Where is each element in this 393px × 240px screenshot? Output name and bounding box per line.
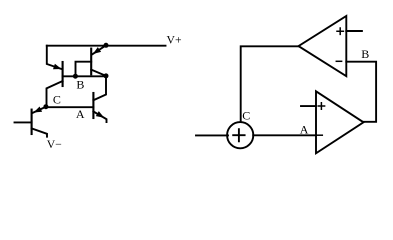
- svg-text:B: B: [76, 78, 84, 92]
- transistor Q1 emitter arrow: [93, 47, 101, 54]
- op-amp U1 minus sign: [336, 60, 341, 62]
- transistor Q2 (PNP, mirrored) base bar: [62, 62, 64, 86]
- transistor Q4 collector wire to V-: [32, 128, 47, 136]
- transistor Q3 (NPN) base bar: [92, 93, 94, 118]
- transistor Q3 emitter arrow: [96, 111, 104, 118]
- op-amp U1 plus sign: [337, 28, 343, 34]
- transistor Q3 emitter wire: [93, 112, 106, 123]
- transistor Q4 base lead: [15, 121, 32, 123]
- node dot on V+ rail (Q1 emitter junction): [104, 43, 109, 48]
- wire U1 - input feedback from U2 output: [346, 62, 376, 122]
- wire node B line (Q2 base to dot2): [63, 75, 106, 77]
- transistor Q1 emitter wire from V+ dot: [93, 45, 107, 54]
- wire U2 + input stub: [301, 105, 316, 107]
- svg-text:V−: V−: [47, 138, 62, 151]
- svg-text:V+: V+: [167, 34, 182, 47]
- wire from V+ rail corner down to Q2 emitter: [47, 46, 63, 70]
- svg-text:C: C: [242, 108, 250, 122]
- svg-text:B: B: [361, 47, 369, 61]
- summing node S1 plus sign: [233, 129, 244, 141]
- svg-text:A: A: [300, 122, 309, 136]
- svg-text:C: C: [53, 92, 61, 106]
- transistor Q1 collector wire: [91, 70, 106, 76]
- wire U1 output down to summing node (node C): [241, 46, 299, 122]
- op-amp U2 (bottom, points right): [316, 91, 364, 153]
- wire U1 + input stub: [346, 30, 362, 32]
- op-amp U2 minus sign: [317, 134, 322, 136]
- wire dot2 down to Q3 collector: [93, 76, 106, 100]
- wire V+ rail: [47, 45, 166, 47]
- transistor Q1 (PNP) base bar: [90, 49, 92, 75]
- wire summing node output to U2 - input: [253, 134, 316, 136]
- svg-text:A: A: [76, 107, 85, 121]
- wire Q1 base connection (dot1 up and over to Q1 bar): [76, 62, 92, 77]
- wire summing node left input stub: [196, 134, 228, 136]
- transistor Q4 (PNP) base bar: [31, 110, 33, 134]
- node dot1 on B line: [73, 74, 78, 79]
- transistor Q4 emitter arrow: [34, 107, 43, 113]
- wire node C-A line (C dot to Q3 base): [46, 106, 94, 108]
- op-amp U1 (top, points left): [299, 16, 347, 76]
- transistor Q2 emitter arrow: [53, 64, 62, 69]
- node dot2 on B line: [104, 73, 109, 78]
- summing node S1 circle: [227, 122, 253, 148]
- transistor Q2 collector wire down to node C: [47, 81, 63, 107]
- node dot C: [43, 104, 48, 109]
- transistor Q4 emitter wire from node C: [32, 107, 46, 113]
- op-amp U2 plus sign: [318, 103, 324, 109]
